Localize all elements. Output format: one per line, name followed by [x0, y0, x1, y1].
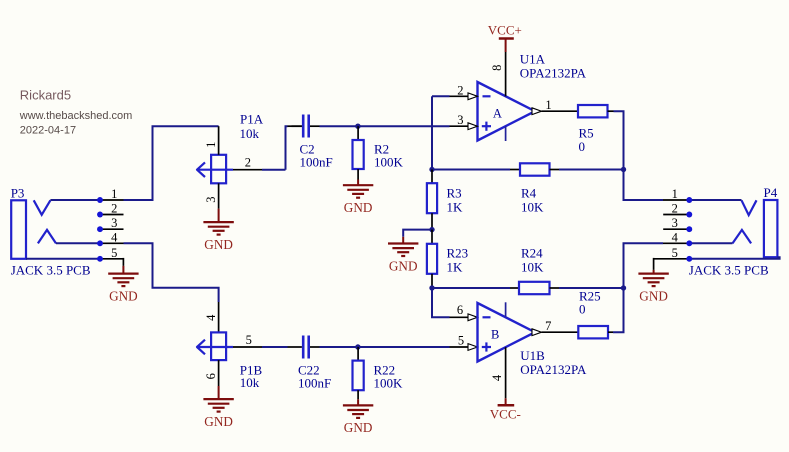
svg-text:5: 5 — [458, 334, 464, 348]
svg-text:100nF: 100nF — [300, 154, 333, 169]
svg-text:2: 2 — [457, 83, 463, 97]
svg-text:10K: 10K — [521, 259, 544, 274]
svg-text:8: 8 — [490, 65, 504, 71]
svg-text:GND: GND — [344, 420, 373, 435]
svg-text:VCC-: VCC- — [490, 407, 521, 422]
svg-text:0: 0 — [579, 302, 586, 317]
svg-text:3: 3 — [111, 216, 117, 230]
svg-text:3: 3 — [204, 196, 218, 202]
svg-text:GND: GND — [109, 288, 138, 303]
svg-text:6: 6 — [204, 373, 218, 379]
svg-text:5: 5 — [672, 246, 678, 260]
svg-text:A: A — [493, 106, 502, 120]
svg-text:U1A: U1A — [520, 52, 546, 67]
svg-text:P1A: P1A — [240, 112, 264, 127]
svg-text:R3: R3 — [447, 186, 462, 201]
svg-text:4: 4 — [204, 314, 218, 321]
svg-text:2: 2 — [672, 202, 678, 216]
svg-text:0: 0 — [579, 139, 586, 154]
svg-text:GND: GND — [204, 237, 233, 252]
svg-text:GND: GND — [344, 200, 373, 215]
svg-text:2: 2 — [111, 202, 117, 216]
svg-text:P4: P4 — [764, 185, 778, 200]
svg-text:100nF: 100nF — [298, 375, 331, 390]
svg-text:Rickard5: Rickard5 — [20, 88, 71, 103]
svg-text:7: 7 — [545, 319, 551, 333]
svg-text:www.thebackshed.com: www.thebackshed.com — [19, 110, 133, 122]
svg-text:4: 4 — [111, 230, 118, 244]
svg-text:R24: R24 — [521, 246, 543, 261]
svg-text:OPA2132PA: OPA2132PA — [520, 65, 587, 80]
svg-text:10k: 10k — [240, 375, 260, 390]
svg-text:5: 5 — [246, 333, 252, 347]
svg-text:1K: 1K — [447, 259, 464, 274]
svg-text:OPA2132PA: OPA2132PA — [520, 362, 587, 377]
svg-text:2: 2 — [245, 156, 251, 170]
svg-text:R23: R23 — [447, 246, 469, 261]
svg-text:3: 3 — [672, 216, 678, 230]
svg-text:1: 1 — [672, 187, 678, 201]
svg-text:6: 6 — [457, 303, 463, 317]
svg-text:GND: GND — [389, 258, 418, 273]
svg-text:U1B: U1B — [520, 348, 545, 363]
svg-text:JACK 3.5 PCB: JACK 3.5 PCB — [689, 263, 769, 278]
svg-text:10k: 10k — [240, 126, 260, 141]
svg-text:1: 1 — [545, 98, 551, 112]
svg-text:4: 4 — [672, 230, 679, 244]
svg-text:JACK 3.5 PCB: JACK 3.5 PCB — [11, 263, 91, 278]
svg-text:VCC+: VCC+ — [488, 23, 522, 38]
svg-text:4: 4 — [490, 374, 504, 381]
svg-text:2022-04-17: 2022-04-17 — [20, 125, 76, 137]
svg-text:10K: 10K — [521, 200, 544, 215]
svg-text:GND: GND — [204, 414, 233, 429]
svg-text:R4: R4 — [521, 186, 537, 201]
svg-text:P3: P3 — [11, 186, 25, 201]
svg-text:5: 5 — [111, 246, 117, 260]
svg-text:100K: 100K — [374, 375, 404, 390]
svg-text:100K: 100K — [374, 154, 404, 169]
svg-text:B: B — [491, 327, 499, 341]
svg-text:GND: GND — [639, 288, 668, 303]
svg-text:3: 3 — [457, 113, 463, 127]
svg-text:1: 1 — [111, 187, 117, 201]
svg-text:1: 1 — [204, 142, 218, 148]
svg-text:1K: 1K — [447, 200, 464, 215]
